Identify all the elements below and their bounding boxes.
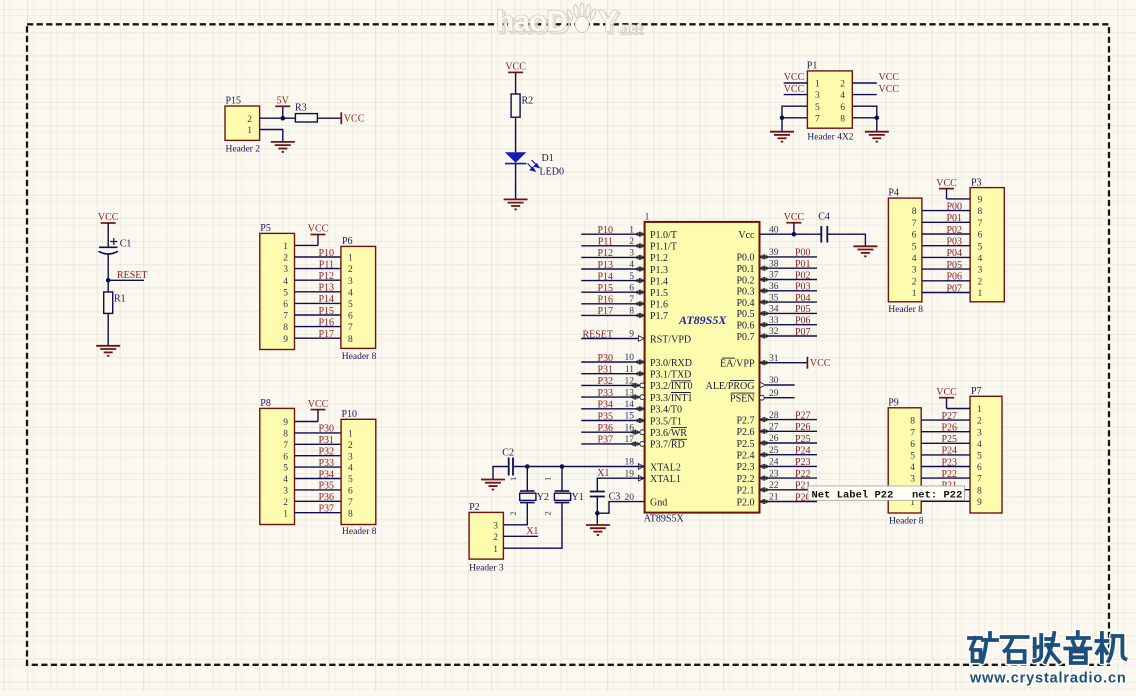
U1 pin 8 P1.7 wire [581,314,644,316]
svg-text:5: 5 [348,475,353,485]
svg-text:P03: P03 [946,237,962,248]
svg-text:31: 31 [769,354,779,364]
svg-text:2: 2 [508,511,518,515]
svg-text:10: 10 [625,353,635,363]
wire net P33 P8.5 to P10.4 [295,466,342,468]
svg-text:P06: P06 [946,272,962,283]
power port VCC at pin 31 [807,357,830,370]
svg-text:net: P22: net: P22 [912,489,962,501]
svg-text:4: 4 [912,254,917,264]
svg-text:P04: P04 [795,293,811,304]
svg-text:P1.6: P1.6 [650,300,668,311]
svg-text:4: 4 [977,440,982,450]
svg-text:7: 7 [283,312,288,322]
svg-text:P1: P1 [807,61,818,72]
wire net P31 P8.7 to P10.2 [295,443,342,445]
svg-text:9: 9 [977,498,982,508]
wire P2.2 stub net X1 [503,535,538,537]
wire net P36 P8.2 to P10.7 [295,500,342,502]
svg-text:2: 2 [283,254,288,264]
svg-text:P10: P10 [597,225,613,236]
svg-text:6: 6 [978,231,983,241]
svg-text:40: 40 [769,225,779,235]
wire net P25 P9.6 to P7.4 [921,442,970,444]
svg-text:1: 1 [645,213,650,223]
wire net P03 P4.5 to P3.5 [922,245,970,247]
svg-text:P13: P13 [318,283,334,294]
svg-text:C2: C2 [502,448,514,459]
svg-text:Gnd: Gnd [650,497,667,508]
svg-text:P0.0: P0.0 [736,253,754,264]
svg-text:P0.3: P0.3 [736,287,754,298]
connector P1 [807,61,854,143]
svg-text:P0.7: P0.7 [736,332,754,343]
svg-text:P24: P24 [941,446,957,457]
svg-text:P1.4: P1.4 [650,276,668,287]
svg-text:Y2: Y2 [537,492,549,503]
junction RESET node [106,278,111,283]
wire C2 to ground [493,467,509,480]
U1 pin 12 P3.2/INT0 wire [581,384,644,386]
svg-text:P35: P35 [318,481,334,492]
wire net P27 P9.8 to P7.2 [921,419,970,421]
svg-text:4: 4 [283,277,288,287]
svg-text:4: 4 [348,464,353,474]
svg-text:www.crystalradio.cn: www.crystalradio.cn [969,671,1127,687]
svg-text:P23: P23 [941,457,957,468]
svg-text:9: 9 [978,196,983,206]
ground at P1 left [770,132,794,142]
svg-text:P00: P00 [795,248,811,259]
svg-text:VCC: VCC [784,84,805,95]
U1 pin 35 P0.4 wire [760,301,818,303]
svg-text:6: 6 [840,103,845,113]
svg-text:P11: P11 [598,237,613,248]
svg-text:2: 2 [543,511,553,515]
svg-text:P24: P24 [795,446,811,457]
wire P15.2 to R3 (net 5V) [260,117,296,119]
svg-text:2: 2 [912,277,917,287]
svg-text:2: 2 [840,80,845,90]
svg-text:RESET: RESET [582,329,613,340]
U1 pin 25 P2.4 wire [760,454,818,456]
wire net P30 P8.8 to P10.1 [295,432,342,434]
svg-text:6: 6 [348,487,353,497]
wire net P10 P5.2 to P6.1 [295,256,341,258]
svg-text:P30: P30 [318,424,334,435]
P15 pin numbers [247,115,252,136]
wire C3 to ground [596,497,598,526]
svg-text:AT89S5X: AT89S5X [644,514,685,525]
svg-text:7: 7 [910,428,915,438]
crystal Y1 [543,467,584,516]
junction VCC at pin 40 [792,232,797,237]
svg-text:6: 6 [912,231,917,241]
svg-text:VCC: VCC [784,72,805,83]
svg-text:1: 1 [815,80,820,90]
wire net P22 P9.3 to P7.7 [921,477,970,479]
svg-text:P04: P04 [946,248,962,259]
svg-text:P26: P26 [795,422,811,433]
P6 pin numbers [348,254,353,345]
P3 pin numbers [978,196,983,300]
svg-text:P37: P37 [597,435,613,446]
svg-text:P2.5: P2.5 [736,439,754,450]
svg-text:P2.4: P2.4 [736,451,754,462]
svg-text:X1: X1 [526,526,538,537]
svg-text:P01: P01 [795,259,811,270]
svg-text:3: 3 [348,277,353,287]
svg-text:5: 5 [815,103,820,113]
svg-text:VCC: VCC [308,224,329,235]
svg-text:P30: P30 [597,353,613,364]
U1 pin 39 P0.0 wire [760,256,818,258]
svg-text:14: 14 [625,400,635,410]
svg-text:P9: P9 [888,398,899,409]
svg-text:22: 22 [769,481,779,491]
wire net P13 P5.5 to P6.4 [295,291,341,293]
U1 pin 15 P3.5/T1 wire [581,420,644,422]
svg-text:P2.2: P2.2 [736,474,754,485]
svg-text:11: 11 [625,365,634,375]
svg-text:Header 8: Header 8 [888,305,923,315]
U1 pin 16 P3.6/WR wire [581,431,644,433]
capacitor C2 [502,448,514,476]
svg-text:30: 30 [769,376,779,386]
svg-text:6: 6 [629,283,634,293]
svg-text:1: 1 [978,289,983,299]
svg-text:PSEN: PSEN [730,394,754,405]
svg-text:7: 7 [977,475,982,485]
svg-text:8: 8 [910,417,915,427]
U1 pin 21 P2.0 wire [760,501,818,503]
svg-text:1: 1 [493,545,498,555]
wire R2 to D1 [515,117,517,152]
svg-text:7: 7 [912,219,917,229]
svg-text:haoD: haoD [496,5,567,38]
svg-text:VCC: VCC [344,114,365,125]
wire net P06 P4.2 to P3.2 [922,280,970,282]
P8 pin numbers [283,418,288,519]
svg-text:9: 9 [283,335,288,345]
svg-text:17: 17 [625,435,635,445]
svg-text:25: 25 [769,446,779,456]
svg-text:5: 5 [978,242,983,252]
svg-text:P3.2/INT0: P3.2/INT0 [650,381,693,392]
svg-text:VCC: VCC [936,178,957,189]
svg-text:8: 8 [283,323,288,333]
connector P4 [888,188,923,315]
svg-text:3: 3 [815,91,820,101]
U1 pin 38 P0.1 wire [760,267,818,269]
svg-text:P0.2: P0.2 [736,275,754,286]
U1 pin 31 EA/VPP wire [760,362,808,364]
svg-text:21: 21 [769,493,779,503]
wire net P34 P8.4 to P10.5 [295,478,342,480]
wire P15.1 to ground [260,130,283,142]
svg-text:P35: P35 [597,411,613,422]
U1 pin 17 P3.7/RD wire [581,443,644,445]
svg-text:1: 1 [283,242,288,252]
svg-text:P3.0/RXD: P3.0/RXD [650,358,692,369]
svg-text:1: 1 [348,430,353,440]
svg-text:1: 1 [348,254,353,264]
svg-text:8: 8 [912,207,917,217]
svg-text:P14: P14 [318,294,334,305]
svg-text:EA/VPP: EA/VPP [720,359,755,370]
svg-text:23: 23 [769,469,779,479]
wire P1.6 and P1.8 to ground [852,106,877,132]
U1 pin 22 P2.1 wire [760,489,818,491]
svg-text:4: 4 [910,463,915,473]
U1 pin 29 PSEN wire [760,397,795,399]
wire net P15 P5.7 to P6.6 [295,314,341,316]
svg-text:3: 3 [283,265,288,275]
wire VCC to P7.1 [947,408,971,410]
wire net P24 P9.5 to P7.5 [921,454,970,456]
svg-text:2: 2 [283,498,288,508]
svg-text:13: 13 [625,388,635,398]
svg-text:C4: C4 [818,212,830,223]
svg-text:P27: P27 [941,411,957,422]
svg-text:P31: P31 [597,365,613,376]
P10 pin numbers [348,430,353,520]
svg-text:P11: P11 [319,259,334,270]
svg-text:P33: P33 [318,458,334,469]
wire net P16 P5.8 to P6.7 [295,326,341,328]
resistor R1 [104,292,126,313]
svg-text:3: 3 [283,487,288,497]
svg-text:P34: P34 [597,400,613,411]
svg-text:R2: R2 [522,96,534,107]
svg-text:P07: P07 [946,283,962,294]
svg-text:Header 2: Header 2 [226,145,261,155]
svg-text:RST/VPD: RST/VPD [650,334,691,345]
svg-text:P32: P32 [597,376,613,387]
wire net P26 P9.7 to P7.3 [921,431,970,433]
svg-text:8: 8 [977,486,982,496]
wire P1.4 to VCC [852,94,877,96]
svg-text:P1.1/T: P1.1/T [650,242,677,253]
svg-text:7: 7 [348,323,353,333]
svg-text:P17: P17 [318,329,334,340]
U1 pin 24 P2.3 wire [760,465,818,467]
U1 pin 10 P3.0/RXD wire [581,361,644,363]
U1 pin 1 P1.0/T wire [581,233,644,235]
svg-text:P1.7: P1.7 [650,311,668,322]
svg-text:VCC: VCC [308,399,329,410]
svg-text:R1: R1 [114,294,126,305]
U1 pin 33 P0.6 wire [760,324,818,326]
crystal Y2 [508,467,549,516]
svg-text:P27: P27 [795,410,811,421]
ground at P1 right [865,132,889,142]
svg-text:P07: P07 [795,327,811,338]
capacitor C4 [818,212,830,243]
svg-text:Y1: Y1 [572,492,584,503]
svg-text:32: 32 [769,327,779,337]
svg-text:P1.0/T: P1.0/T [650,230,677,241]
U1 pin 14 P3.4/T0 wire [581,408,644,410]
svg-text:Y: Y [598,5,618,38]
svg-text:ALE/PROG: ALE/PROG [706,381,755,392]
svg-text:4: 4 [978,254,983,264]
svg-text:P32: P32 [318,447,334,458]
svg-text:8: 8 [978,207,983,217]
svg-text:P31: P31 [318,435,334,446]
wire net P04 P4.4 to P3.4 [922,256,970,258]
MCU U1 AT89S5X body [644,213,760,525]
wire P1.2 to VCC [852,82,877,84]
svg-text:1: 1 [629,225,634,235]
resistor R2 [511,94,533,117]
connector P2 [469,502,504,573]
svg-text:AT89S5X: AT89S5X [678,313,727,327]
svg-text:5V: 5V [277,96,290,107]
svg-text:5: 5 [629,272,634,282]
wire net P05 P4.3 to P3.3 [922,268,970,270]
resistor R3 [295,103,317,123]
svg-text:Net Label P22: Net Label P22 [812,489,894,501]
wire P1.1 to VCC [784,82,808,84]
wire VCC to P3.9 [947,198,971,200]
junction XTAL2 at Y1 [560,464,565,469]
wire C4 to ground [827,234,865,246]
svg-text:VCC: VCC [936,387,957,398]
wire R1 to ground [107,313,109,345]
svg-text:1: 1 [543,477,553,481]
svg-text:C3: C3 [609,492,621,503]
svg-text:1: 1 [508,477,518,481]
svg-text:P25: P25 [795,434,811,445]
svg-text:P00: P00 [946,201,962,212]
wire net P17 P5.9 to P6.8 [295,337,341,339]
svg-text:12: 12 [625,377,635,387]
svg-text:1: 1 [912,289,917,299]
svg-text:VCC: VCC [98,212,119,223]
svg-text:1: 1 [247,126,252,136]
ground at D1 [504,199,528,209]
svg-text:8: 8 [283,430,288,440]
wire RESET stub [108,279,144,281]
svg-text:P23: P23 [795,457,811,468]
junction at P1 left ground [780,116,785,121]
wire net P01 P4.7 to P3.7 [922,221,970,223]
tooltip Net Label P22 [808,486,964,501]
wire net P14 P5.6 to P6.5 [295,302,341,304]
svg-text:P02: P02 [795,270,811,281]
svg-text:7: 7 [815,114,820,124]
junction Gnd net [595,511,600,516]
svg-text:2: 2 [348,265,353,275]
wire Y2 to P2.3 [503,503,527,525]
U1 pin 11 P3.1/TXD wire [581,373,644,375]
svg-text:P05: P05 [795,304,811,315]
svg-text:7: 7 [283,441,288,451]
svg-text:2: 2 [247,115,252,125]
svg-text:P2.0: P2.0 [736,497,754,508]
svg-text:P3.5/T1: P3.5/T1 [650,416,682,427]
svg-text:P33: P33 [597,388,613,399]
ground at C2 [481,480,505,490]
svg-text:6: 6 [283,300,288,310]
power port VCC at P7 pin 1 [936,387,957,409]
LED D1 [505,152,564,177]
junction at P1 right ground [875,116,880,121]
P2 pin numbers [493,521,498,554]
power port 5V [275,96,290,119]
power port VCC above C1 [98,212,119,247]
ground at R1 [96,346,120,356]
wire net P20 P9.1 to P7.9 [921,500,970,502]
svg-text:Header 4X2: Header 4X2 [807,133,853,143]
svg-text:P3.1/TXD: P3.1/TXD [650,370,691,381]
capacitor C3 [590,492,620,503]
svg-text:P06: P06 [795,316,811,327]
wire P1.5 and P1.7 to ground [782,106,807,132]
svg-text:VCC: VCC [784,212,805,223]
capacitor C1 (polarized) [99,238,132,254]
U1 pin 37 P0.2 wire [760,279,818,281]
svg-text:R3: R3 [295,103,307,114]
wire P8.9 to VCC [295,421,319,423]
svg-text:P01: P01 [946,213,962,224]
svg-text:VCC: VCC [879,84,900,95]
svg-text:1: 1 [283,509,288,519]
svg-text:P6: P6 [342,236,353,247]
svg-text:P2: P2 [469,502,480,513]
connector P10 [341,409,377,537]
connector P8 [260,398,295,525]
svg-text:5: 5 [348,300,353,310]
svg-text:P1.3: P1.3 [650,265,668,276]
P4 pin numbers [912,207,917,299]
svg-text:3: 3 [977,428,982,438]
svg-text:28: 28 [769,411,779,421]
svg-text:3: 3 [978,266,983,276]
svg-text:6: 6 [283,452,288,462]
svg-text:P8: P8 [260,398,271,409]
svg-text:P12: P12 [597,248,613,259]
P5 pin numbers [283,242,288,345]
P7 pin numbers [977,405,982,508]
svg-text:RESET: RESET [117,270,148,281]
power port VCC above pin 40 [784,212,805,234]
svg-text:Header 8: Header 8 [342,352,377,362]
svg-text:D1: D1 [542,153,554,164]
svg-text:3: 3 [629,249,634,259]
svg-text:26: 26 [769,434,779,444]
svg-text:4: 4 [629,260,634,270]
connector P6 [341,236,377,362]
svg-text:P22: P22 [795,469,811,480]
svg-text:XTAL1: XTAL1 [650,474,681,485]
svg-text:P34: P34 [318,469,334,480]
svg-text:5: 5 [912,242,917,252]
U1 pin 6 P1.5 wire [581,291,644,293]
U1 pin 13 P3.3/INT1 wire [581,396,644,398]
svg-text:P13: P13 [597,260,613,271]
svg-text:VCC: VCC [505,62,526,73]
U1 pin 23 P2.2 wire [760,477,818,479]
svg-text:36: 36 [769,282,779,292]
svg-text:P0.5: P0.5 [736,309,754,320]
svg-text:P15: P15 [597,283,613,294]
svg-text:P15: P15 [226,96,242,107]
wire Y1 to P2.1 [503,503,562,549]
svg-text:8: 8 [348,335,353,345]
U1 pin 7 P1.6 wire [581,303,644,305]
